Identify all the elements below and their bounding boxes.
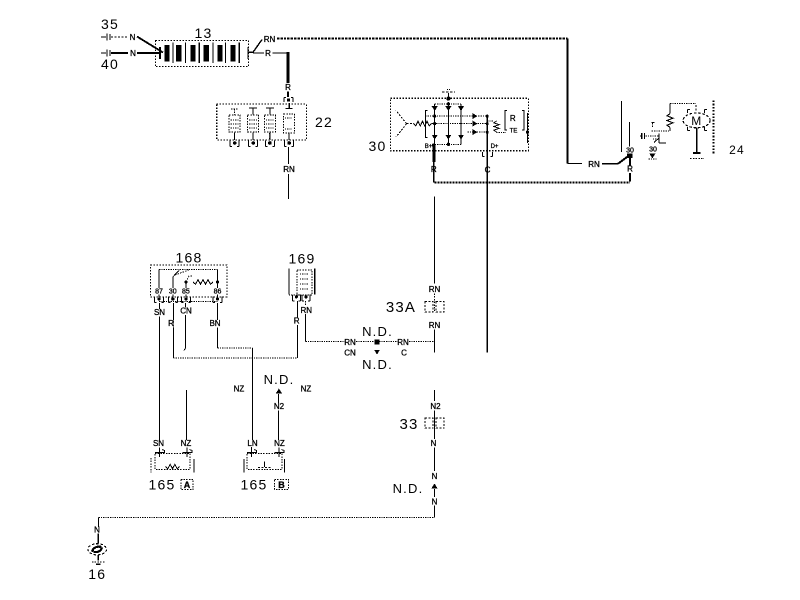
svg-text:33: 33	[399, 416, 418, 433]
svg-text:N2: N2	[274, 402, 285, 411]
svg-text:BN: BN	[209, 319, 220, 328]
svg-text:RN: RN	[301, 306, 313, 315]
svg-text:B+: B+	[425, 144, 433, 150]
svg-text:A: A	[184, 480, 191, 490]
svg-text:RN: RN	[429, 321, 441, 330]
svg-text:SN: SN	[154, 308, 165, 317]
svg-text:N: N	[431, 439, 437, 448]
svg-text:R: R	[285, 83, 291, 92]
svg-text:R: R	[168, 319, 174, 328]
svg-text:N: N	[94, 526, 100, 535]
svg-text:33A: 33A	[386, 299, 416, 316]
svg-text:D+: D+	[491, 144, 499, 150]
svg-text:CN: CN	[180, 307, 192, 316]
svg-text:24: 24	[729, 143, 745, 157]
svg-text:RN: RN	[429, 285, 441, 294]
svg-text:13: 13	[195, 25, 213, 41]
svg-text:85: 85	[182, 289, 190, 296]
svg-text:168: 168	[176, 250, 203, 266]
svg-text:C: C	[401, 349, 407, 358]
svg-text:RN: RN	[283, 165, 295, 174]
svg-text:N: N	[130, 33, 136, 42]
svg-text:169: 169	[289, 251, 316, 267]
svg-text:R: R	[265, 49, 271, 58]
svg-text:NZ: NZ	[234, 385, 245, 394]
svg-text:NZ: NZ	[301, 385, 312, 394]
svg-text:30: 30	[369, 138, 387, 154]
svg-text:RN: RN	[344, 338, 356, 347]
svg-text:N: N	[432, 498, 438, 507]
svg-text:165: 165	[149, 477, 176, 493]
svg-text:N: N	[432, 472, 438, 481]
svg-text:22: 22	[315, 114, 333, 130]
svg-text:RN: RN	[588, 160, 600, 169]
svg-text:NZ: NZ	[181, 439, 192, 448]
svg-text:C: C	[485, 166, 491, 175]
svg-text:N.D.: N.D.	[264, 372, 295, 387]
svg-text:87: 87	[155, 289, 163, 296]
svg-text:B: B	[278, 480, 285, 490]
svg-text:N.D.: N.D.	[393, 481, 424, 496]
svg-text:30: 30	[626, 147, 634, 154]
svg-text:R: R	[627, 165, 633, 174]
svg-text:RN: RN	[264, 35, 276, 44]
svg-text:LN: LN	[247, 439, 257, 448]
svg-text:16: 16	[88, 566, 106, 582]
svg-text:TE: TE	[510, 129, 518, 135]
svg-text:40: 40	[101, 56, 119, 72]
svg-text:R: R	[294, 317, 300, 326]
svg-text:NZ: NZ	[274, 439, 285, 448]
svg-text:M: M	[691, 114, 702, 128]
svg-text:N.D.: N.D.	[362, 357, 393, 372]
svg-text:35: 35	[101, 16, 119, 32]
svg-text:R: R	[510, 114, 516, 123]
svg-text:30: 30	[169, 289, 177, 296]
svg-text:RN: RN	[397, 338, 409, 347]
svg-text:N: N	[130, 49, 136, 58]
svg-text:CN: CN	[344, 349, 356, 358]
svg-text:N2: N2	[430, 402, 441, 411]
svg-text:R: R	[431, 165, 437, 174]
svg-text:30: 30	[649, 146, 657, 153]
svg-text:SN: SN	[153, 439, 164, 448]
svg-text:N.D.: N.D.	[362, 324, 393, 339]
svg-text:165: 165	[241, 477, 268, 493]
svg-text:86: 86	[214, 289, 222, 296]
